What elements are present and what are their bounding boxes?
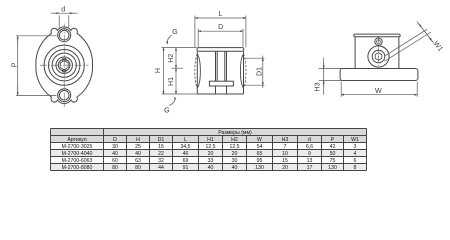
svg-text:6,6: 6,6 [306, 144, 313, 150]
svg-text:20: 20 [208, 151, 214, 157]
svg-text:3: 3 [354, 144, 357, 150]
svg-text:d: d [61, 6, 65, 13]
svg-text:12,5: 12,5 [205, 144, 215, 150]
svg-text:130: 130 [255, 165, 264, 171]
svg-text:G: G [164, 108, 169, 115]
svg-text:40: 40 [208, 165, 214, 171]
svg-text:H2: H2 [231, 137, 238, 143]
svg-text:13: 13 [307, 158, 313, 164]
svg-text:4: 4 [354, 151, 357, 157]
svg-text:Размеры (мм): Размеры (мм) [218, 130, 252, 136]
svg-text:D: D [113, 137, 117, 143]
svg-text:60: 60 [112, 158, 118, 164]
svg-text:80: 80 [112, 165, 118, 171]
svg-text:M-2700-8080: M-2700-8080 [62, 165, 93, 171]
svg-text:20: 20 [232, 151, 238, 157]
svg-text:W: W [257, 137, 262, 143]
svg-text:H2: H2 [168, 54, 175, 63]
svg-text:M-2700-6063: M-2700-6063 [62, 158, 93, 164]
svg-text:30: 30 [112, 144, 118, 150]
svg-text:L: L [218, 11, 222, 18]
svg-text:95: 95 [257, 158, 263, 164]
svg-text:20: 20 [282, 165, 288, 171]
svg-text:W1: W1 [351, 137, 359, 143]
svg-text:G: G [172, 29, 177, 36]
svg-text:80: 80 [135, 165, 141, 171]
svg-text:L: L [184, 137, 187, 143]
svg-text:75: 75 [330, 158, 336, 164]
svg-text:40: 40 [112, 151, 118, 157]
svg-text:8: 8 [354, 165, 357, 171]
svg-text:M-2700-4040: M-2700-4040 [62, 151, 93, 157]
svg-text:D1: D1 [257, 67, 264, 76]
svg-text:7: 7 [284, 144, 287, 150]
svg-text:12,5: 12,5 [229, 144, 239, 150]
svg-text:15: 15 [282, 158, 288, 164]
svg-text:63: 63 [135, 158, 141, 164]
svg-text:W1: W1 [432, 40, 444, 53]
svg-text:40: 40 [232, 165, 238, 171]
svg-text:69: 69 [183, 158, 189, 164]
svg-text:34,5: 34,5 [180, 144, 190, 150]
svg-text:Артикул: Артикул [67, 137, 86, 143]
svg-text:H1: H1 [207, 137, 214, 143]
svg-text:130: 130 [328, 165, 337, 171]
svg-text:32: 32 [158, 158, 164, 164]
svg-text:H1: H1 [168, 77, 175, 86]
svg-text:H: H [155, 68, 162, 73]
svg-text:30: 30 [232, 158, 238, 164]
svg-text:54: 54 [257, 144, 263, 150]
svg-text:H: H [136, 137, 140, 143]
svg-text:50: 50 [330, 151, 336, 157]
svg-text:P: P [331, 137, 335, 143]
svg-text:M-2700-3025: M-2700-3025 [62, 144, 93, 150]
svg-text:d: d [308, 137, 311, 143]
svg-text:D1: D1 [158, 137, 165, 143]
svg-text:44: 44 [158, 165, 164, 171]
svg-text:P: P [11, 62, 18, 67]
svg-text:W: W [375, 88, 382, 95]
svg-text:42: 42 [330, 144, 336, 150]
svg-text:91: 91 [183, 165, 189, 171]
svg-text:65: 65 [257, 151, 263, 157]
svg-text:10: 10 [282, 151, 288, 157]
svg-text:D: D [218, 24, 223, 31]
svg-text:H3: H3 [315, 82, 322, 91]
svg-text:9: 9 [308, 151, 311, 157]
svg-text:33: 33 [208, 158, 214, 164]
svg-text:H3: H3 [282, 137, 289, 143]
svg-text:6: 6 [354, 158, 357, 164]
svg-text:40: 40 [135, 151, 141, 157]
svg-text:25: 25 [135, 144, 141, 150]
svg-text:22: 22 [158, 151, 164, 157]
svg-text:46: 46 [183, 151, 189, 157]
svg-text:17: 17 [307, 165, 313, 171]
svg-text:15: 15 [158, 144, 164, 150]
